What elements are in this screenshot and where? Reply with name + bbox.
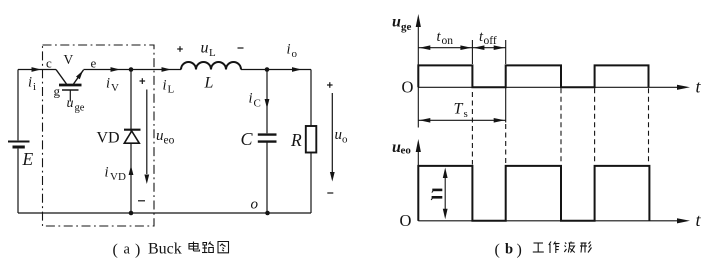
amplitude arrow E	[443, 168, 448, 220]
plus sign u_o	[327, 82, 333, 88]
dash-dot enclosure box	[43, 45, 155, 226]
wire bottom rail	[18, 212, 311, 214]
node junction diode top	[129, 67, 134, 72]
svg-text:VD: VD	[110, 171, 126, 183]
diode VD	[124, 130, 141, 144]
caption (b)	[495, 242, 522, 259]
label i_VD	[105, 165, 126, 184]
svg-text:L: L	[209, 47, 216, 59]
svg-text:u: u	[392, 14, 401, 31]
wire capacitor branch upper	[266, 70, 268, 134]
label i_o	[287, 42, 298, 61]
label u_eo	[156, 128, 175, 147]
svg-text:i: i	[33, 81, 36, 93]
svg-text:ge: ge	[401, 21, 412, 33]
svg-text:u: u	[335, 127, 343, 143]
svg-text:O: O	[400, 211, 412, 230]
tick period end	[505, 40, 507, 64]
wire left rail upper	[17, 70, 19, 141]
svg-text:t: t	[696, 77, 702, 97]
current arrow i_V	[111, 67, 121, 72]
node junction capacitor top	[265, 67, 270, 72]
svg-text:C: C	[254, 98, 261, 110]
svg-text:a: a	[124, 242, 131, 258]
label T_s	[454, 101, 468, 121]
u_ge time axis	[418, 85, 690, 90]
capacitor C	[258, 135, 277, 142]
dashed line pulse2 fall	[560, 88, 562, 164]
wire inductor to right rail	[241, 69, 311, 71]
svg-text:eo: eo	[401, 145, 412, 157]
dashed line period edge	[505, 124, 507, 165]
caption a chinese 图	[218, 242, 229, 253]
svg-text:c: c	[46, 56, 52, 71]
current arrow i_o	[292, 67, 302, 72]
svg-text:R: R	[290, 130, 302, 150]
svg-text:(: (	[495, 242, 500, 259]
current arrow i_L	[162, 67, 172, 72]
wire top-left from battery to transistor collector	[18, 69, 56, 71]
u_eo vertical axis	[416, 139, 421, 221]
svg-text:e: e	[91, 56, 97, 71]
current arrow i_C	[265, 99, 270, 109]
wire right rail lower	[310, 153, 312, 214]
svg-text:i: i	[28, 75, 32, 91]
current arrow i_VD	[129, 166, 134, 176]
dimension t_on	[418, 45, 472, 50]
wire capacitor branch lower	[266, 142, 268, 213]
svg-text:i: i	[249, 91, 253, 107]
svg-text:V: V	[64, 52, 74, 67]
svg-text:i: i	[287, 42, 291, 58]
label t_on	[437, 29, 454, 47]
svg-text:i: i	[163, 78, 167, 94]
wire left rail lower	[17, 149, 19, 213]
wire solid below period end	[505, 87, 507, 122]
caption b chinese 波	[564, 242, 575, 253]
svg-text:g: g	[54, 84, 61, 99]
svg-text:off: off	[484, 35, 497, 47]
minus sign u_eo	[138, 200, 145, 202]
minus sign u_o	[327, 192, 333, 194]
voltage arrow u_o	[330, 93, 335, 182]
svg-text:t: t	[696, 210, 702, 230]
tick t_on end	[471, 40, 473, 64]
svg-text:i: i	[106, 76, 110, 92]
u_eo waveform	[418, 166, 649, 221]
label u_o	[335, 127, 349, 146]
node o junction	[265, 211, 270, 216]
svg-text:Buck: Buck	[148, 241, 182, 258]
svg-text:VD: VD	[97, 130, 120, 147]
dashed line pulse3 fall	[648, 88, 650, 164]
caption a chinese 路	[202, 242, 214, 253]
transistor V	[56, 70, 84, 102]
resistor R	[306, 126, 317, 153]
wire diode branch	[130, 70, 132, 214]
svg-text:i: i	[105, 165, 109, 181]
wire right rail upper	[310, 70, 312, 127]
dimension t_off	[472, 45, 505, 50]
svg-text:on: on	[442, 35, 454, 47]
voltage arrow u_eo	[144, 90, 149, 185]
caption b chinese 形	[580, 242, 592, 253]
svg-text:O: O	[402, 77, 414, 96]
svg-text:o: o	[292, 48, 298, 60]
amplitude label rotated E	[431, 190, 442, 200]
label u_ge	[67, 96, 85, 114]
svg-text:E: E	[22, 149, 34, 169]
u_eo time axis	[418, 218, 690, 223]
label i_V	[106, 76, 119, 95]
minus sign u_L	[238, 47, 244, 49]
svg-text:C: C	[241, 129, 254, 149]
svg-text:): )	[517, 242, 522, 259]
caption a chinese 电	[189, 242, 200, 252]
label u_eo axis	[392, 139, 411, 157]
svg-text:b: b	[505, 242, 513, 258]
dimension T_s	[418, 118, 505, 123]
svg-text:V: V	[111, 82, 119, 94]
svg-text:ge: ge	[75, 103, 85, 114]
svg-text:s: s	[464, 108, 468, 120]
plus sign u_eo	[140, 78, 146, 84]
u_ge waveform	[418, 65, 648, 87]
plus sign u_L	[177, 46, 183, 52]
svg-text:u: u	[67, 96, 74, 111]
node junction diode bottom	[129, 211, 134, 216]
caption b chinese 作	[549, 242, 560, 254]
inductor L	[181, 62, 241, 69]
svg-text:L: L	[204, 75, 214, 92]
label i_i	[28, 75, 36, 94]
svg-text:): )	[135, 242, 140, 259]
dashed line t_on edge	[471, 92, 473, 165]
svg-text:o: o	[342, 134, 348, 146]
svg-text:eo: eo	[164, 135, 175, 147]
wire emitter to inductor	[84, 69, 182, 71]
label t_off	[479, 29, 497, 47]
svg-text:T: T	[454, 101, 464, 118]
svg-text:(: (	[113, 242, 118, 259]
label u_ge axis	[392, 14, 412, 34]
caption (a)	[113, 241, 182, 259]
svg-text:u: u	[156, 128, 164, 144]
svg-text:o: o	[251, 196, 259, 212]
svg-text:L: L	[168, 83, 175, 95]
dashed line pulse3 rise	[594, 88, 596, 164]
label i_C	[249, 91, 261, 110]
caption b chinese 工	[533, 243, 544, 252]
battery E	[8, 142, 30, 148]
label i_L	[163, 78, 175, 96]
svg-text:u: u	[201, 40, 209, 57]
u_ge vertical axis	[416, 14, 421, 128]
current arrow i_i	[32, 67, 42, 72]
label u_L	[201, 40, 217, 60]
